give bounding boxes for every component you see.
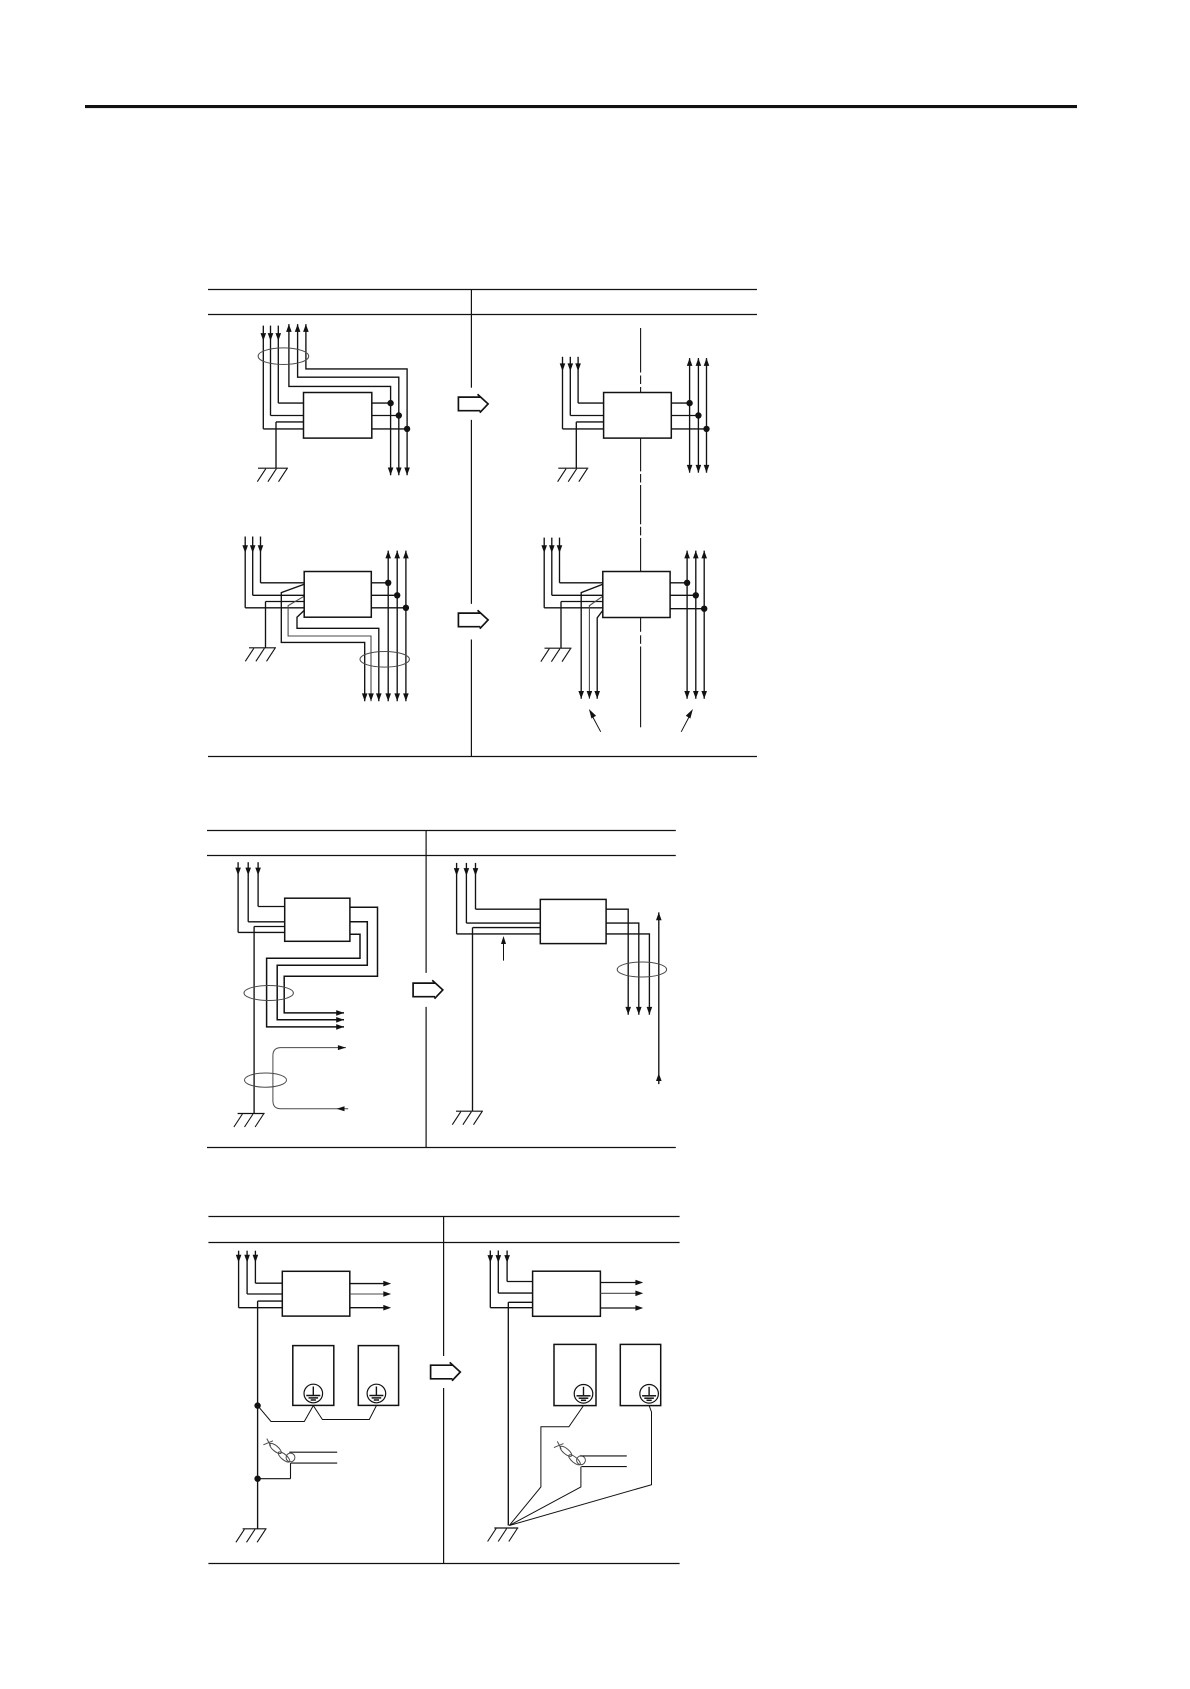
D3 input wire 1: [258, 537, 305, 583]
D5 output wire 2: [277, 922, 367, 1023]
D4 ground symbol: [541, 648, 572, 662]
D7 ground symbol: [236, 1529, 267, 1543]
D8 PE terminal of box B: [640, 1385, 659, 1404]
D5 input wire 3: [235, 862, 284, 932]
D7 junction on ground bus (upper): [254, 1402, 260, 1408]
D8 twisted pair wire upper: [580, 1455, 627, 1457]
D1 input wire 3: [261, 326, 304, 429]
D8 equipment box A: [554, 1344, 596, 1405]
D3 signal line 3: [371, 551, 409, 702]
D3 ground wire: [266, 602, 305, 648]
D1 drive box: [304, 393, 372, 439]
D5 input wire 2: [245, 862, 284, 922]
D7 drive box: [282, 1271, 350, 1316]
D8 drive box: [533, 1271, 601, 1316]
D7 input wire 3: [236, 1251, 282, 1308]
D1 ground wire: [276, 422, 304, 468]
D7 twisted pair wire lower: [291, 1462, 337, 1464]
D5 drive box: [285, 898, 350, 941]
D8 twisted pair wire lower: [581, 1466, 626, 1468]
D1 ground symbol: [257, 468, 288, 482]
D2 output line 1 (vertical, arrows both ends): [671, 358, 693, 473]
D4 input wire 3: [541, 538, 602, 608]
D5 ground wire (long, to earth): [254, 927, 285, 1114]
D2 ground wire: [576, 422, 603, 468]
D2 separation centre line (dash-dot): [640, 328, 642, 727]
D8 PE terminal of box A: [574, 1385, 593, 1404]
D7 junction on ground bus (lower): [254, 1476, 260, 1482]
D8 twisted pair earth lead to single point: [509, 1467, 581, 1526]
D6 input wire 3: [454, 863, 541, 934]
D2 output line 2: [671, 358, 701, 473]
D1 box output stub 1 with junction: [372, 400, 394, 406]
D1 output wire A routed up beside inputs (bundled): [286, 324, 393, 475]
D8 input wire 2: [496, 1251, 533, 1294]
D4 left-exit power wire 3: [594, 610, 602, 698]
D7 equipment box A: [293, 1346, 334, 1406]
D3 left-exit power wire 1 (routed into bundle): [281, 584, 367, 701]
D3 drive box: [304, 572, 371, 618]
D4 signal line 2: [670, 551, 699, 699]
D1 input wire 1 (down arrow into drive box): [276, 326, 304, 404]
D7 earth wire box A to box B: [313, 1406, 376, 1420]
D8 output wire 1: [600, 1280, 643, 1286]
top horizontal rule: [85, 105, 1077, 108]
D4 drive box: [603, 572, 670, 618]
D5 ground symbol: [234, 1114, 265, 1128]
D8 twisted pair icon: [554, 1441, 585, 1466]
D7 twisted pair earth lead: [258, 1463, 291, 1479]
D3 bundling ellipse: [360, 652, 409, 668]
D5 output wire 3: [267, 934, 360, 1029]
D8 output wire 2: [600, 1291, 643, 1297]
D5 input wire 1: [255, 862, 284, 906]
D2 input wire 1: [575, 357, 603, 403]
D6 return signal line (up arrows): [656, 912, 662, 1084]
D4 input wire 2: [549, 538, 603, 596]
D7 equipment box B: [358, 1346, 398, 1406]
D8 input wire 1: [504, 1251, 532, 1282]
D2 input wire 3: [560, 357, 604, 429]
big arrow, table 2: [413, 980, 443, 998]
D7 input wire 2: [244, 1251, 282, 1294]
D4 ground wire: [561, 602, 603, 649]
D5 bundling ellipse (outputs near ground wire): [244, 986, 293, 1001]
table 1 frame: [208, 290, 757, 757]
D8 earth wire from box A to single point: [509, 1406, 583, 1526]
D8 output wire 3: [600, 1305, 643, 1311]
D7 twisted pair icon: [263, 1439, 295, 1464]
D2 ground symbol: [558, 468, 589, 482]
D8 equipment box B: [620, 1344, 660, 1405]
D7 ground bus wire: [258, 1301, 283, 1529]
D6 ground wire (long, to earth): [473, 928, 541, 1112]
D5 signal loop running along ground wire: [273, 1045, 348, 1111]
D3 ground symbol: [245, 648, 276, 662]
D7 output wire 2: [350, 1291, 391, 1297]
D5 bundling ellipse 2 (loop near ground wire): [245, 1073, 287, 1087]
D6 bundling ellipse: [617, 962, 666, 977]
D7 earth wire to box A: [258, 1406, 314, 1422]
big arrow (incorrect-to-correct), table 1 row 2: [458, 610, 488, 628]
D7 input wire 1: [253, 1251, 283, 1284]
D8 single-point ground symbol: [488, 1528, 519, 1542]
D2 drive box: [604, 393, 672, 439]
D2 output line 3: [671, 358, 709, 473]
D1 input wire 2: [268, 326, 304, 416]
D3 left-exit power wire 2: [288, 596, 374, 701]
D4 annotation arrow left: [589, 709, 601, 732]
D8 ground wire to single-point earth: [508, 1302, 532, 1525]
D3 signal line 1 (vertical, arrows both ends): [371, 551, 391, 702]
D7 output wire 3: [350, 1305, 391, 1311]
D6 annotation arrow at ground wire: [501, 936, 506, 961]
D6 output wire 2: [606, 923, 642, 1015]
D6 drive box: [540, 899, 606, 943]
D8 input wire 3: [488, 1251, 533, 1308]
D3 input wire 2: [250, 537, 304, 596]
D3 left-exit power wire 3: [297, 610, 382, 701]
big arrow (incorrect-to-correct), table 1 row 1: [458, 394, 488, 412]
D7 PE terminal of box A: [304, 1384, 323, 1403]
D7 PE terminal of box B: [367, 1384, 386, 1403]
D1 bundling ellipse: [258, 348, 309, 365]
D4 annotation arrow right: [681, 709, 693, 732]
D1 box output stub 2 with junction: [372, 412, 402, 418]
D4 left-exit power wire 1 (kept separate): [578, 584, 602, 699]
D1 output wire C: [303, 324, 410, 475]
table 2 frame: [207, 831, 676, 1148]
D7 output wire 1: [350, 1281, 391, 1287]
D4 signal line 3: [670, 551, 707, 699]
D6 input wire 2: [464, 863, 541, 923]
D1 output wire B: [295, 324, 402, 475]
table 3 frame: [208, 1217, 679, 1564]
D6 output wire 1 (led away): [606, 909, 631, 1015]
D5 output wire 1 looped back near ground wire: [284, 907, 377, 1016]
D8 earth wire from box B to single point: [509, 1406, 651, 1526]
D3 input wire 3: [242, 537, 304, 608]
D2 input wire 2: [568, 357, 604, 416]
D3 signal line 2: [371, 551, 400, 702]
D4 signal line 1: [670, 551, 690, 699]
D6 output wire 3: [606, 934, 652, 1015]
D4 input wire 1: [557, 538, 603, 583]
D6 input wire 1: [473, 863, 541, 909]
D4 left-exit power wire 2: [587, 596, 603, 699]
big arrow, table 3: [431, 1362, 461, 1380]
D6 ground symbol: [452, 1111, 483, 1125]
D7 twisted pair wire upper: [289, 1451, 337, 1453]
D1 box output stub 3 with junction: [372, 426, 411, 432]
